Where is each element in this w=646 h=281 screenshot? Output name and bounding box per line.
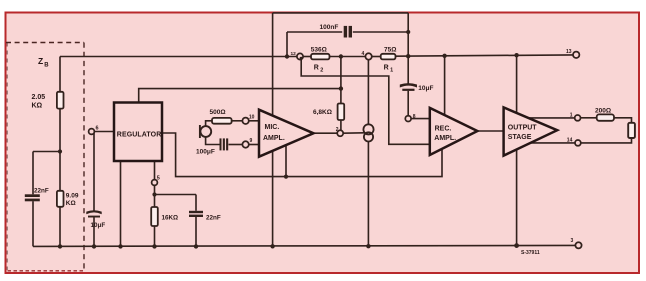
wire output stage power — [516, 55, 518, 113]
svg-text:1: 1 — [570, 112, 573, 118]
wire regulator top pin — [139, 89, 341, 103]
op-amp rec ampl — [430, 108, 478, 155]
junction node 100nF-left / main row — [285, 54, 289, 58]
wire mic top lead — [206, 121, 212, 127]
wire pin2 to current source — [343, 132, 364, 134]
wire 22nF bottom — [32, 201, 34, 246]
svg-text:4: 4 — [362, 51, 365, 57]
wire 100nF loop top left — [287, 31, 342, 33]
junction rail supply vertical — [270, 244, 274, 248]
resistor R2 536ohm — [311, 54, 330, 60]
wire 10uF to pin8 — [407, 91, 409, 116]
capacitor 22nF left — [25, 194, 40, 201]
microphone — [200, 125, 211, 138]
junction R1 output / 10uF branch — [406, 54, 410, 58]
resistor 500ohm — [212, 118, 232, 124]
wire pin9 to mic ampl — [249, 144, 259, 146]
wire 500ohm to pin10 — [232, 120, 243, 122]
svg-text:1: 1 — [390, 67, 393, 73]
wire output stage ground — [516, 150, 518, 246]
svg-text:8: 8 — [413, 114, 416, 120]
junction rail output stage — [514, 243, 519, 248]
wire 200ohm to load — [614, 118, 632, 123]
svg-text:6,8KΩ: 6,8KΩ — [313, 109, 332, 116]
svg-text:2: 2 — [320, 67, 323, 73]
capacitor 100uF electrolytic — [220, 138, 229, 150]
wire load to pin14 — [581, 138, 632, 143]
node 4 — [365, 53, 371, 59]
svg-text:100nF: 100nF — [320, 24, 339, 31]
junction output-stage supply — [514, 53, 518, 57]
svg-text:14: 14 — [567, 137, 573, 143]
resistor 6.8k — [338, 104, 345, 121]
svg-text:3: 3 — [571, 238, 574, 244]
wire 22nF mid bottom — [195, 217, 197, 247]
wire outer loop top — [273, 12, 409, 14]
svg-text:5: 5 — [157, 176, 160, 182]
pin 14 — [575, 140, 581, 146]
resistor 2.05k — [57, 92, 64, 109]
wire 6.8k to pin2 — [340, 120, 342, 130]
current source — [363, 124, 373, 141]
junction Zb / 22nF branch — [58, 149, 62, 153]
pin 13 — [573, 52, 579, 58]
regulator U1 — [114, 103, 162, 162]
svg-text:2.05: 2.05 — [32, 94, 46, 101]
wire 16k to rail — [154, 226, 156, 246]
wire 100nF loop left — [286, 32, 288, 57]
wire node4 down to current source — [367, 57, 369, 125]
wire 22nF mid top — [195, 195, 197, 211]
wire pin6 to regulator — [95, 131, 115, 133]
svg-text:22nF: 22nF — [34, 188, 49, 195]
junction mic-ampl ground / bus — [284, 175, 288, 179]
wire pin6 node down to 10uF — [93, 132, 95, 211]
svg-text:B: B — [44, 63, 49, 69]
wire junction to 9.09k — [59, 152, 61, 192]
junction pin5 / 22nF branch — [152, 192, 156, 196]
wire 22nF top — [32, 152, 34, 195]
svg-text:10: 10 — [249, 114, 255, 120]
junction 100nF top right — [406, 30, 410, 34]
wire mic ampl output to pin2 — [314, 132, 338, 134]
wire pin14 to output stage — [530, 142, 575, 144]
pin 10 — [242, 118, 248, 124]
svg-text:AMPL.: AMPL. — [263, 135, 285, 142]
svg-text:KΩ: KΩ — [32, 103, 43, 110]
svg-text:75Ω: 75Ω — [384, 47, 396, 54]
junction rail 16k — [152, 244, 156, 248]
wire pin12 feedback — [301, 58, 430, 144]
junction regulator-top wire / 6.8k — [339, 86, 343, 90]
wire 2.05k to junction — [59, 109, 61, 152]
pin 1 — [575, 115, 581, 121]
wire 100nF loop top right — [353, 31, 408, 33]
resistor R1 75ohm — [381, 54, 396, 60]
svg-text:R: R — [314, 64, 319, 71]
op-amp mic ampl — [259, 110, 314, 157]
junction pin12 feedback tap — [300, 57, 303, 60]
junction R2 output / 6.8k branch — [339, 54, 343, 58]
wire outer loop right / 10uF branch — [407, 13, 409, 84]
svg-text:536Ω: 536Ω — [311, 47, 327, 54]
junction rail 10uF — [92, 244, 96, 248]
capacitor 100nF — [344, 26, 352, 38]
resistor 16k — [151, 207, 158, 226]
svg-text:S-37911: S-37911 — [521, 250, 540, 256]
svg-text:10μF: 10μF — [91, 222, 106, 229]
wire regulator right pin to common bus — [162, 133, 442, 177]
wire output stage to pin1 — [529, 117, 575, 119]
svg-text:6: 6 — [96, 126, 99, 132]
wire to 22nF mid branch — [155, 194, 197, 196]
svg-text:2: 2 — [336, 127, 339, 133]
wire R2 junction down to 6.8k — [340, 57, 342, 104]
svg-text:13: 13 — [566, 49, 572, 55]
svg-text:500Ω: 500Ω — [210, 109, 226, 116]
svg-text:MIC.: MIC. — [265, 124, 280, 131]
wire pin10 to mic ampl — [249, 120, 259, 122]
wire pin12 to R2 — [303, 56, 311, 58]
wire mic ampl ground pin — [285, 145, 287, 177]
wire R2 to node4 — [330, 56, 366, 58]
junction rail 9.09k — [58, 244, 62, 248]
resistor 200ohm — [597, 114, 614, 120]
pin 6 — [89, 129, 95, 135]
svg-text:R: R — [384, 64, 389, 71]
wire main row — [60, 56, 297, 58]
svg-text:9.09: 9.09 — [66, 192, 79, 199]
wire 9.09k to rail — [59, 207, 61, 246]
wire regulator bottom to pin5 — [154, 161, 156, 180]
wire rec ampl output — [477, 130, 503, 132]
junction rail 22nF — [194, 244, 198, 248]
svg-text:22nF: 22nF — [206, 215, 221, 222]
svg-text:STAGE: STAGE — [508, 134, 532, 141]
pin 2 — [337, 130, 343, 136]
svg-text:AMPL.: AMPL. — [434, 135, 456, 142]
svg-text:10μF: 10μF — [418, 85, 433, 92]
junction rail current source — [366, 244, 370, 248]
pin 3 — [575, 242, 581, 248]
svg-text:OUTPUT: OUTPUT — [508, 125, 538, 132]
svg-text:16KΩ: 16KΩ — [162, 215, 179, 222]
wire R1 to pin13 — [395, 55, 573, 56]
svg-text:200Ω: 200Ω — [595, 108, 611, 115]
wire pin5 to 16k — [154, 186, 156, 208]
junction rec-ampl supply — [442, 54, 446, 58]
resistor load right — [628, 123, 635, 138]
pin 5 — [152, 180, 158, 186]
pin 12 — [297, 53, 303, 59]
svg-text:100μF: 100μF — [196, 148, 215, 155]
wire Zb vertical — [59, 57, 61, 93]
dashed balance network box — [6, 43, 84, 271]
wire node4 to R1 — [372, 56, 381, 58]
wire rec ampl power — [444, 55, 446, 115]
wire pin1 to 200ohm — [581, 117, 597, 119]
svg-text:9: 9 — [250, 138, 253, 144]
capacitor 22nF mid — [189, 211, 203, 217]
svg-text:REGULATOR: REGULATOR — [117, 131, 162, 138]
wire outer loop left vertical — [272, 13, 274, 246]
svg-text:Z: Z — [38, 56, 43, 66]
svg-text:REC.: REC. — [435, 126, 452, 133]
capacitor 10uF left electrolytic — [86, 210, 101, 217]
resistor 9.09k — [57, 191, 64, 207]
wire 10uF to rail — [93, 218, 95, 247]
wire pin8 to rec ampl — [411, 118, 430, 120]
wire current source to rail — [367, 142, 369, 247]
wire 100uF to pin9 — [229, 144, 243, 146]
junction rail regulator — [118, 244, 122, 248]
pin 8 — [405, 116, 411, 122]
op-amp output stage — [504, 107, 558, 155]
svg-text:KΩ: KΩ — [66, 200, 76, 207]
pin 9 — [242, 141, 248, 147]
svg-text:12: 12 — [291, 51, 297, 57]
wire mic bottom lead — [206, 137, 220, 145]
wire regulator bottom pin 1 — [120, 161, 122, 246]
wire bottom rail — [33, 245, 575, 246]
wire 22nF branch horizontal — [33, 151, 60, 153]
capacitor 10uF right electrolytic — [400, 83, 417, 91]
